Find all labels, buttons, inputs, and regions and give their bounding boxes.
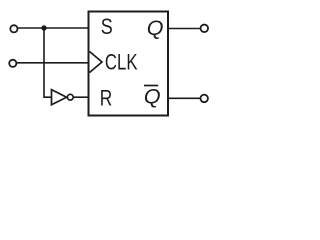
svg-text:R: R <box>100 85 113 110</box>
flip-flop body U1 <box>89 12 169 116</box>
inverter bubble <box>67 94 73 100</box>
overline of Q-bar <box>144 85 158 87</box>
input terminal CLK (mid-left) <box>9 60 16 67</box>
inverter U2 triangle <box>52 90 67 105</box>
wire: junction down to inverter row <box>44 28 52 97</box>
wire: inverter to R pin <box>73 96 88 98</box>
output terminal Q-bar <box>200 95 208 103</box>
wire: Q output <box>168 28 200 30</box>
input terminal S (top-left) <box>10 25 17 32</box>
wire: S terminal to box <box>18 27 89 29</box>
wire: Q-bar output <box>168 97 200 99</box>
output terminal Q <box>201 25 209 33</box>
svg-text:S: S <box>101 14 113 39</box>
svg-text:CLK: CLK <box>105 49 138 74</box>
svg-text:Q: Q <box>147 16 164 40</box>
junction node <box>42 26 47 31</box>
svg-text:Q: Q <box>144 84 161 108</box>
wire: CLK terminal to box <box>17 62 89 64</box>
clock edge wedge <box>90 52 103 73</box>
